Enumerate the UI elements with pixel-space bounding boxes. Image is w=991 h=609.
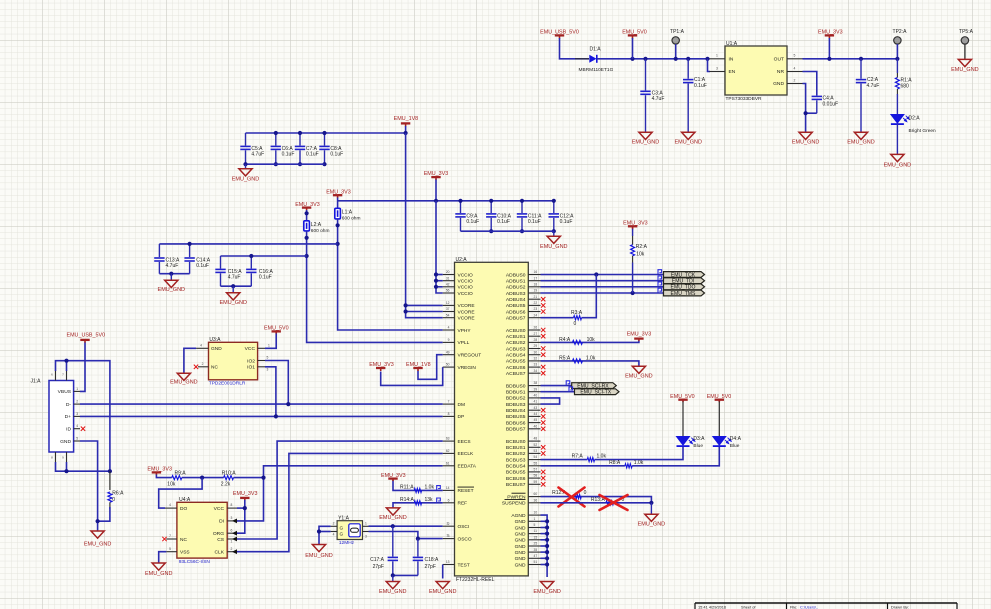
resistor R2 10k	[632, 229, 634, 236]
resistor R7 1.0k	[587, 458, 594, 462]
port EMU_TMS	[664, 290, 705, 296]
ground EMU_GND (U2 GND bus)	[541, 582, 554, 589]
net glyph EMU_TDI	[658, 276, 662, 280]
svg-text:IO1: IO1	[247, 365, 255, 371]
wire J1 GND down	[80, 441, 98, 531]
svg-text:0.1uF: 0.1uF	[528, 219, 541, 225]
svg-text:ADBUS3: ADBUS3	[506, 291, 526, 297]
svg-text:GND: GND	[515, 562, 526, 568]
svg-text:15: 15	[534, 535, 538, 539]
svg-text:63: 63	[446, 437, 450, 441]
capacitor C6 0.1uF	[275, 133, 277, 146]
pin 1 IN	[710, 58, 726, 60]
pin 38 BDBUS0	[528, 385, 540, 387]
no-connect marker	[541, 353, 545, 357]
net glyph SCI-TX	[569, 387, 573, 391]
svg-text:OSCO: OSCO	[458, 536, 472, 542]
svg-text:EMU_GND: EMU_GND	[847, 140, 875, 146]
pin 5 IO2 (U3)	[258, 360, 265, 362]
pin 50 VREGIN	[443, 366, 455, 368]
svg-text:61: 61	[446, 461, 450, 465]
wire C15/C16 top rail	[221, 255, 307, 257]
svg-text:2.2k: 2.2k	[221, 482, 231, 488]
svg-text:BCBUS2: BCBUS2	[506, 451, 526, 457]
ground EMU_GND (C2)	[854, 132, 867, 139]
no-connect marker	[541, 420, 545, 424]
svg-text:36: 36	[534, 498, 538, 502]
svg-text:ACBUS3: ACBUS3	[506, 346, 526, 352]
svg-text:BCBUS5: BCBUS5	[506, 470, 526, 476]
wire EN branch	[708, 59, 711, 72]
svg-text:DM: DM	[458, 402, 465, 408]
pin 1 VCC (U3)	[258, 347, 265, 349]
resistor R4 10k	[573, 340, 583, 344]
svg-text:0: 0	[112, 497, 115, 503]
wire EECLK to U4 CLK	[237, 453, 443, 551]
capacitor C15 4.7uF	[220, 256, 222, 269]
node L2 below bead	[305, 236, 309, 240]
ferrite bead L1 600 ohm	[335, 208, 341, 219]
node OSCI/C17	[391, 524, 395, 528]
node VCCIO	[434, 285, 438, 289]
capacitor C3 4.7uF	[643, 57, 647, 61]
pin 7 DM	[443, 403, 455, 405]
capacitor C13 4.7uF	[158, 244, 160, 257]
svg-text:1: 1	[268, 343, 270, 347]
node gnd tap	[243, 162, 247, 166]
node C14 top	[188, 242, 192, 246]
svg-text:20: 20	[446, 270, 450, 274]
node L2/C15 rail	[305, 254, 309, 258]
node C bottom	[274, 162, 278, 166]
svg-text:39: 39	[534, 387, 538, 391]
svg-text:R8:A: R8:A	[609, 460, 621, 466]
pin 39 BDBUS1	[528, 391, 540, 393]
wire AGND/GND bus	[541, 515, 548, 577]
pin 58 BCBUS6	[528, 477, 540, 479]
pin 46 BDBUS7	[528, 428, 540, 430]
pin 7 NC (U4)	[166, 538, 177, 540]
wire ADBUS3 to EMU_TMS	[541, 292, 664, 294]
wire R9 feed	[156, 475, 171, 478]
wire R9 to R10	[182, 477, 224, 479]
svg-text:4: 4	[169, 503, 171, 507]
svg-text:EMU_GND: EMU_GND	[792, 140, 820, 146]
wire GND pin tap	[541, 539, 548, 541]
svg-text:EMU_GND: EMU_GND	[951, 67, 979, 73]
pin 52 BCBUS1	[528, 446, 540, 448]
svg-text:ADBUS5: ADBUS5	[506, 303, 526, 309]
svg-text:TPD2E001DRLR: TPD2E001DRLR	[209, 381, 246, 387]
node C15 gnd tap	[231, 284, 235, 288]
wire R1 to D2	[896, 94, 898, 115]
capacitor C16 0.1uF	[250, 256, 252, 269]
pin 4 GND (U3)	[196, 347, 208, 349]
capacitor C1 0.1uF	[686, 57, 690, 61]
LED D2 Bright Green	[891, 115, 904, 124]
pin 60 PWREN	[528, 496, 540, 498]
wire VCCIO tap	[436, 274, 443, 276]
svg-text:28: 28	[534, 338, 538, 342]
pin 5 GND	[528, 527, 540, 529]
shield pin 9 (bottom)	[66, 452, 68, 462]
node VCCIO	[434, 279, 438, 283]
node L1/C13 rail	[336, 242, 340, 246]
node R9/R10	[200, 476, 204, 480]
svg-text:ACBUS7: ACBUS7	[506, 371, 526, 377]
svg-text:BDBUS3: BDBUS3	[506, 402, 526, 408]
svg-text:TEST: TEST	[458, 562, 470, 568]
pin 1 CS (U4)	[227, 538, 237, 540]
svg-text:57: 57	[534, 468, 538, 472]
svg-text:4: 4	[448, 326, 450, 330]
svg-text:50: 50	[446, 363, 450, 367]
svg-text:16: 16	[534, 270, 538, 274]
svg-text:ADBUS2: ADBUS2	[506, 285, 526, 291]
svg-text:0: 0	[574, 321, 577, 327]
pin 55 BCBUS4	[528, 465, 540, 467]
node C top	[274, 131, 278, 135]
svg-text:2: 2	[231, 547, 233, 551]
pin 4 (Y1)	[331, 531, 338, 533]
wire PWREN to R12	[541, 497, 652, 503]
svg-text:Blue: Blue	[693, 443, 703, 449]
svg-text:ACBUS2: ACBUS2	[506, 340, 526, 346]
capacitor C18 27pF	[417, 539, 419, 557]
svg-text:CS: CS	[217, 537, 225, 543]
svg-text:BDBUS6: BDBUS6	[506, 420, 526, 426]
svg-text:21: 21	[534, 295, 538, 299]
svg-text:SUSPEND: SUSPEND	[502, 501, 526, 507]
svg-text:0.1uF: 0.1uF	[466, 219, 479, 225]
node C9-12 top	[489, 199, 493, 203]
pin 2 (Y1)	[331, 525, 338, 527]
pin 30 ACBUS4	[528, 354, 540, 356]
pin 5 GND (J1)	[74, 440, 80, 442]
capacitor C7 0.1uF	[299, 133, 301, 146]
wire TEST to ground	[442, 565, 444, 579]
wire R10 to EEDATA node	[234, 477, 264, 479]
no-connect marker	[541, 414, 545, 418]
wire ADBUS0 to EMU_TCK	[541, 274, 664, 276]
pin 28 ACBUS2	[528, 341, 540, 343]
svg-text:1: 1	[365, 521, 367, 525]
svg-text:ACBUS4: ACBUS4	[506, 353, 526, 359]
svg-text:4.7uF: 4.7uF	[251, 152, 264, 158]
pin 20 VCCIO	[443, 274, 455, 276]
node GND bus	[545, 525, 549, 529]
wire VBUS to port	[80, 343, 85, 392]
svg-text:34: 34	[534, 369, 538, 373]
pin 2 NC (U3)	[198, 366, 209, 368]
svg-text:BDBUS2: BDBUS2	[506, 396, 526, 402]
wire EEDATA to R10 node	[264, 466, 443, 478]
svg-text:NC: NC	[211, 365, 218, 371]
svg-text:2: 2	[202, 362, 204, 366]
pin 23 ADBUS6	[528, 311, 540, 313]
pin 14 RESET	[443, 489, 455, 491]
svg-text:600 ohm: 600 ohm	[311, 228, 330, 234]
node shield top	[64, 359, 68, 363]
wire U3 IO1 to DP	[265, 367, 276, 417]
pin 40 BDBUS2	[528, 397, 540, 399]
capacitor C4 0.01uF	[816, 94, 818, 97]
svg-text:BDBUS1: BDBUS1	[506, 390, 526, 396]
svg-text:ACBUS1: ACBUS1	[506, 334, 526, 340]
ground EMU_GND (TP5)	[958, 59, 971, 66]
node GND bus	[545, 519, 549, 523]
wire SUSPEND to R13	[541, 502, 652, 504]
node C9-12 top	[520, 199, 524, 203]
pin 5 OUT	[787, 58, 803, 60]
net glyph EMU_TDO	[658, 282, 662, 286]
wire ADBUS1 to EMU_TDI	[541, 280, 664, 282]
wire D3 anode	[682, 402, 684, 437]
wire GND pin tap	[541, 564, 548, 566]
resistor R12 0 (DNP)	[575, 495, 582, 499]
ic U2 FT2232HL-REEL body	[455, 262, 529, 576]
svg-text:EMU_GND: EMU_GND	[632, 140, 660, 146]
svg-text:0.01uF: 0.01uF	[823, 101, 839, 107]
svg-text:2: 2	[76, 400, 78, 404]
svg-text:GND: GND	[773, 81, 784, 87]
node 1V8 rail corner	[404, 131, 408, 135]
pin 54 BCBUS3	[528, 459, 540, 461]
wire REF resistor	[393, 503, 443, 508]
capacitor C9 0.1uF	[460, 201, 462, 213]
resistor R10 2.2k	[224, 476, 234, 480]
node C9-12 bottom	[552, 229, 556, 233]
svg-text:9: 9	[448, 338, 450, 342]
wire OUT to 3V3 rail	[803, 58, 898, 60]
wire D2 to ground	[896, 124, 898, 154]
wire ACBUS2 to R4	[541, 341, 639, 343]
node C bottom	[298, 162, 302, 166]
svg-text:1.0k: 1.0k	[586, 355, 596, 361]
svg-text:1: 1	[534, 517, 536, 521]
svg-text:31: 31	[446, 276, 450, 280]
no-connect marker U3 NC	[194, 365, 198, 369]
svg-text:L2:A: L2:A	[311, 222, 322, 228]
svg-text:IO2: IO2	[247, 358, 255, 364]
svg-text:49: 49	[446, 350, 450, 354]
net glyph EMU_TMS	[658, 288, 662, 292]
DNP cross R12	[559, 488, 585, 507]
svg-text:VCCIO: VCCIO	[458, 291, 473, 297]
no-connect marker	[541, 309, 545, 313]
pin 11 GND	[528, 533, 540, 535]
svg-text:R9:A: R9:A	[175, 471, 187, 477]
pin 29 ACBUS3	[528, 348, 540, 350]
ground EMU_GND (C5-C8)	[245, 164, 247, 169]
svg-text:GND: GND	[515, 544, 526, 550]
svg-text:EN: EN	[729, 69, 736, 75]
svg-text:EMU_GND: EMU_GND	[219, 300, 247, 306]
net glyph RESET	[437, 486, 441, 490]
svg-text:18: 18	[534, 282, 538, 286]
svg-text:EMU_GND: EMU_GND	[533, 589, 561, 595]
pin 3 IO1 (U3)	[258, 366, 265, 368]
pin 22 ADBUS5	[528, 304, 540, 306]
wire EECS to U4 CS	[237, 441, 443, 539]
svg-text:BCBUS3: BCBUS3	[506, 457, 526, 463]
svg-text:15:41 4/29/2016: 15:41 4/29/2016	[698, 604, 726, 609]
svg-text:62: 62	[446, 449, 450, 453]
svg-text:45: 45	[534, 418, 538, 422]
svg-text:EMU_3V3: EMU_3V3	[233, 491, 258, 497]
svg-text:1.0k: 1.0k	[597, 453, 607, 459]
resistor R14 12k	[414, 501, 421, 505]
pin 15 GND	[528, 539, 540, 541]
node VCORE	[404, 309, 408, 313]
svg-text:44: 44	[534, 412, 538, 416]
wire VCCIO tap	[436, 280, 443, 282]
svg-text:54: 54	[534, 455, 538, 459]
svg-text:33: 33	[534, 363, 538, 367]
crystal Y1 12MHz body	[337, 521, 362, 540]
svg-text:Bright Green: Bright Green	[909, 128, 937, 134]
pin 8 DP	[443, 415, 455, 417]
wire U4 VCC/ORG	[237, 507, 245, 509]
svg-text:Drawn By:: Drawn By:	[891, 604, 909, 609]
svg-text:EMU_GND: EMU_GND	[170, 379, 198, 385]
wire D4 anode	[718, 402, 720, 437]
wire GND pin tap	[541, 527, 548, 529]
ground EMU_GND (C13/C14)	[170, 274, 172, 281]
pin 41 BDBUS3	[528, 403, 540, 405]
svg-text:43: 43	[534, 406, 538, 410]
svg-text:BCBUS4: BCBUS4	[506, 464, 526, 470]
wire RESET pull-up	[393, 480, 443, 490]
svg-text:R2:A: R2:A	[636, 244, 648, 250]
wire OSCO to crystal	[369, 532, 443, 539]
wire NR to C4	[803, 72, 817, 96]
svg-text:58: 58	[534, 474, 538, 478]
svg-text:47: 47	[534, 554, 538, 558]
pin 2 OSCI	[443, 525, 455, 527]
wire C9-C12 bottom rail	[461, 230, 554, 232]
pin 57 BCBUS5	[528, 471, 540, 473]
pin 3 OSCO	[443, 538, 455, 540]
pin 63 EECS	[443, 440, 455, 442]
svg-text:REF: REF	[458, 501, 468, 507]
ground EMU_GND (D2)	[891, 154, 904, 161]
svg-text:R11:A: R11:A	[400, 485, 414, 491]
pin 61 EEDATA	[443, 465, 455, 467]
svg-text:U4:A: U4:A	[179, 497, 191, 503]
svg-text:VCC: VCC	[214, 506, 225, 512]
svg-text:8: 8	[231, 503, 233, 507]
no-connect marker	[541, 470, 545, 474]
pin 4 NR	[787, 71, 803, 73]
resistor R8 1.0k	[625, 464, 632, 468]
svg-text:EMU_GND: EMU_GND	[379, 515, 407, 521]
svg-text:GND: GND	[60, 439, 71, 445]
pin 4 DO (U4)	[165, 507, 177, 509]
wire C5-C8 bottom rail	[246, 163, 325, 165]
svg-text:6: 6	[448, 498, 450, 502]
resistor R6 0	[109, 471, 111, 490]
svg-text:4: 4	[333, 533, 335, 537]
svg-text:DO: DO	[180, 506, 187, 512]
svg-text:51: 51	[534, 560, 538, 564]
wire ACBUS5 to R5	[541, 361, 639, 366]
svg-text:4.7uF: 4.7uF	[228, 275, 241, 281]
node IO2/DM	[286, 402, 290, 406]
pin 35 GND	[528, 551, 540, 553]
wire DM (USB D-)	[80, 403, 443, 405]
svg-text:U2:A: U2:A	[456, 257, 468, 263]
pin 5 VSS (U4)	[166, 551, 177, 553]
node C top	[322, 131, 326, 135]
port EMU_SCI-RX	[572, 383, 617, 389]
svg-text:1: 1	[231, 540, 233, 544]
svg-text:35: 35	[534, 548, 538, 552]
no-connect marker	[541, 334, 545, 338]
svg-text:L1:A: L1:A	[342, 209, 353, 215]
pin 24 ADBUS7	[528, 317, 540, 319]
svg-text:C17:A: C17:A	[370, 557, 385, 563]
pin 3 (Y1)	[363, 531, 369, 533]
svg-text:59: 59	[534, 480, 538, 484]
ground EMU_GND (C15/C16)	[232, 286, 234, 293]
node TMS/R2	[631, 291, 635, 295]
shield pin 8 (bottom)	[55, 452, 57, 462]
wire C17/C18 bottom rail	[393, 574, 418, 576]
ground EMU_GND (C17/C18)	[392, 575, 394, 581]
ground EMU_GND (PWREN)	[650, 503, 652, 514]
capacitor C5 4.7uF	[245, 133, 247, 146]
port EMU_SCI-TX	[575, 389, 620, 395]
svg-text:37: 37	[446, 307, 450, 311]
node EMU_5V0 junction	[630, 57, 634, 61]
crystal glyph	[349, 524, 360, 537]
port EMU_TDI	[664, 278, 705, 284]
svg-text:3: 3	[447, 534, 449, 538]
svg-text:OSCI: OSCI	[458, 524, 470, 530]
ground EMU_GND (U1)	[799, 132, 812, 139]
svg-text:VPHY: VPHY	[458, 328, 472, 334]
connector J1 body	[49, 381, 74, 453]
node L2 port	[305, 211, 309, 215]
pin 54 VCORE	[443, 317, 455, 319]
svg-text:VSS: VSS	[180, 550, 190, 556]
wire EMU_3V3 to VCCIO pins	[436, 201, 443, 293]
no-connect marker	[541, 476, 545, 480]
svg-text:52: 52	[534, 443, 538, 447]
svg-text:38: 38	[534, 381, 538, 385]
svg-text:D1:A: D1:A	[590, 47, 602, 53]
svg-text:10: 10	[534, 511, 538, 515]
title block frame	[695, 602, 957, 604]
svg-text:ACBUS6: ACBUS6	[506, 365, 526, 371]
svg-text:13k: 13k	[425, 497, 434, 503]
pin 3 EN	[710, 71, 726, 73]
ground EMU_GND (C3)	[639, 132, 652, 139]
svg-text:MBRM110ET1G: MBRM110ET1G	[579, 67, 614, 73]
svg-text:R5:A: R5:A	[559, 355, 571, 361]
svg-text:VCORE: VCORE	[458, 316, 475, 322]
svg-text:2: 2	[794, 78, 796, 82]
svg-text:0.1uF: 0.1uF	[560, 219, 573, 225]
wire U1 GND pin down	[803, 84, 806, 133]
pin 8 VCC (U4)	[227, 507, 237, 509]
svg-text:EMU_GND: EMU_GND	[540, 244, 568, 250]
wire EMU_1V8 rail to VCORE pins	[406, 133, 443, 318]
svg-text:1.0k: 1.0k	[634, 460, 644, 466]
svg-text:27pF: 27pF	[425, 564, 436, 570]
resistor R3 0	[574, 316, 582, 320]
